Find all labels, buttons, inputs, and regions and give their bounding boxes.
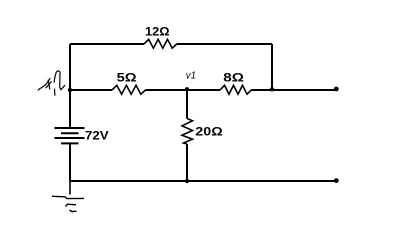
node v1 junction dot	[185, 87, 189, 91]
junction dot middle-right (top branch joins)	[270, 87, 274, 91]
svg-text:v1: v1	[186, 70, 196, 82]
resistor 5ohm zigzag	[112, 85, 146, 94]
node A junction dot	[68, 88, 72, 92]
wire right vertical (top branch down to middle)	[271, 44, 273, 90]
resistor 8ohm zigzag	[220, 85, 251, 94]
svg-text:8Ω: 8Ω	[223, 71, 244, 85]
resistor 20ohm zigzag (vertical)	[182, 119, 193, 145]
label 72V	[85, 129, 109, 143]
wire middle branch: 8ohm to right terminal	[251, 89, 337, 91]
terminal dot upper right	[334, 87, 339, 92]
wire top branch right segment	[177, 43, 272, 45]
label 12ohm	[145, 25, 170, 39]
battery V 72V	[55, 128, 85, 143]
resistor 12ohm zigzag	[144, 39, 177, 48]
label 20ohm	[195, 125, 223, 139]
wire middle branch: 5ohm to node v1	[146, 89, 221, 91]
wire top branch left segment	[70, 43, 144, 45]
wire left vertical upper (top to battery)	[69, 44, 71, 128]
svg-text:72V: 72V	[85, 129, 109, 143]
terminal dot lower right	[334, 178, 339, 183]
wire middle branch: node A to 5ohm	[70, 89, 112, 91]
node v1 label	[186, 70, 196, 82]
wire ground stub	[69, 181, 71, 195]
annotation scribble left of node A	[38, 71, 65, 96]
wire middle vertical above 20ohm	[186, 90, 188, 119]
wire middle vertical below 20ohm	[186, 144, 188, 181]
svg-text:5Ω: 5Ω	[117, 71, 137, 85]
junction dot bottom middle	[185, 179, 189, 183]
wire left vertical lower (battery to bottom)	[69, 143, 71, 181]
ground symbol (sketchy)	[52, 196, 84, 211]
wire bottom branch	[70, 180, 338, 182]
label 8ohm	[223, 71, 244, 85]
svg-text:12Ω: 12Ω	[145, 25, 170, 39]
svg-text:20Ω: 20Ω	[195, 125, 223, 139]
label 5ohm	[117, 71, 137, 85]
